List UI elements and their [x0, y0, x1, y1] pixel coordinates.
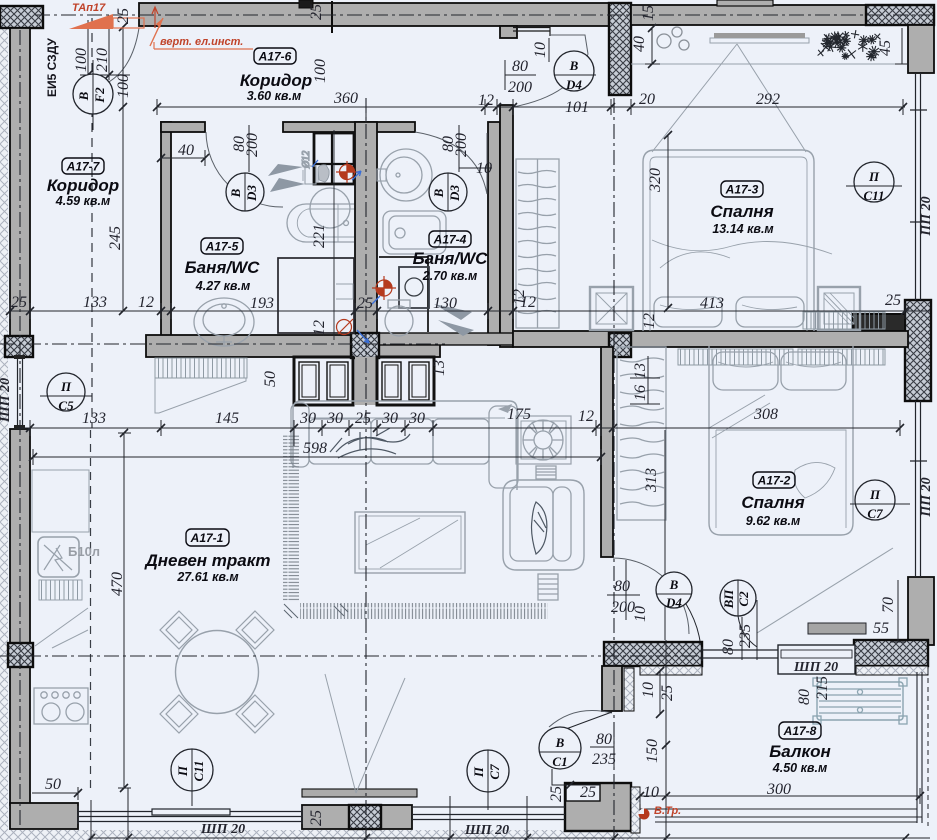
svg-text:12: 12 — [641, 313, 658, 329]
svg-text:235: 235 — [737, 624, 754, 648]
svg-text:2.70 кв.м: 2.70 кв.м — [422, 269, 477, 283]
svg-text:ПП 20: ПП 20 — [919, 477, 934, 517]
tag ВП/C2 — [720, 580, 757, 647]
left vertical dim 470 — [118, 433, 131, 788]
bedroom2 13/16 dims — [630, 356, 660, 404]
svg-text:80: 80 — [614, 578, 630, 595]
svg-text:В: В — [76, 91, 91, 101]
svg-text:А17-7: А17-7 — [66, 160, 101, 174]
svg-text:ШП 20: ШП 20 — [200, 822, 245, 837]
svg-text:245: 245 — [107, 226, 124, 250]
svg-text:Спалня: Спалня — [710, 202, 773, 221]
cabinet row group2 — [377, 357, 434, 405]
hatch block below baths (axis 366) — [351, 333, 379, 358]
top-left hatch block — [0, 6, 43, 28]
svg-text:100: 100 — [73, 48, 90, 72]
bottom dim lines — [90, 788, 930, 840]
svg-text:С7: С7 — [867, 506, 883, 521]
living balcony door arc C1 — [549, 710, 612, 727]
svg-text:413: 413 — [700, 295, 724, 312]
svg-text:30: 30 — [408, 410, 425, 427]
bath1 80/200 door line — [248, 125, 250, 172]
radiator bedroom1 — [803, 312, 885, 329]
svg-text:25: 25 — [357, 295, 373, 312]
axis vertical corridor dashed — [91, 18, 93, 428]
svg-text:200: 200 — [453, 133, 470, 157]
svg-text:470: 470 — [109, 572, 126, 596]
under-band hatch strip right — [856, 666, 928, 675]
kitchen comb — [39, 580, 82, 600]
bath1 installation shaft box — [314, 133, 354, 184]
svg-text:133: 133 — [83, 294, 107, 311]
kitchen counter — [32, 470, 89, 532]
svg-text:25: 25 — [115, 8, 132, 24]
svg-text:П: П — [868, 169, 880, 184]
svg-text:40: 40 — [631, 36, 648, 52]
svg-text:25: 25 — [580, 784, 596, 801]
tag П/C7 bottom — [467, 750, 509, 810]
dim 50 bottom-left — [32, 787, 78, 800]
vert el inst bracket — [154, 42, 253, 49]
svg-text:ШП 20: ШП 20 — [464, 823, 509, 838]
round stove — [516, 416, 571, 464]
svg-text:145: 145 — [215, 410, 239, 427]
under-band hatch strip left — [640, 666, 702, 675]
axis vertical living (366) — [365, 98, 367, 840]
svg-text:40: 40 — [178, 142, 194, 159]
svg-text:221: 221 — [311, 224, 328, 248]
balcony exterior door ШП20 — [778, 645, 855, 674]
svg-text:100: 100 — [312, 59, 329, 83]
C1 leader — [552, 769, 600, 785]
svg-text:235: 235 — [592, 751, 616, 768]
svg-text:9.62 кв.м: 9.62 кв.м — [746, 514, 800, 528]
axis horizontal balcony wall — [604, 655, 700, 657]
svg-text:308: 308 — [753, 406, 778, 423]
axis horizontal mid-left — [0, 343, 445, 345]
svg-text:50: 50 — [262, 371, 279, 387]
right window 1 glazing — [910, 73, 927, 300]
sofa — [293, 401, 517, 490]
blue arrows — [352, 171, 361, 180]
plant top-right scribble — [818, 30, 881, 61]
bedroom2 door 80/200 — [607, 560, 640, 620]
bottom window 2 glazing — [412, 807, 565, 820]
svg-text:320: 320 — [647, 168, 664, 193]
vent bubbles — [657, 34, 671, 48]
svg-text:15: 15 — [640, 5, 657, 21]
svg-text:В: В — [569, 58, 579, 73]
black stub above band — [299, 0, 313, 8]
svg-text:25: 25 — [308, 4, 325, 20]
bedroom divider wall — [513, 331, 908, 347]
right mid hatched pier — [905, 300, 931, 401]
svg-text:В: В — [431, 188, 446, 198]
svg-text:Б10л: Б10л — [68, 544, 100, 559]
svg-text:ПП 20: ПП 20 — [919, 196, 934, 236]
svg-text:ЕИ5 СЗДУ: ЕИ5 СЗДУ — [45, 38, 59, 97]
svg-text:С11: С11 — [864, 188, 885, 203]
dim line corridor y107 — [157, 99, 905, 115]
svg-text:А17-6: А17-6 — [258, 50, 292, 64]
sunbed balcony — [813, 678, 907, 724]
svg-text:25: 25 — [885, 292, 901, 309]
svg-text:12: 12 — [478, 92, 494, 109]
svg-text:80: 80 — [596, 731, 612, 748]
room А17-8 — [769, 722, 831, 775]
bottom pier hatch strip — [631, 787, 640, 833]
bath top wall segment 1 — [161, 122, 205, 132]
bedroom1 top closet edge line — [631, 63, 906, 65]
axis vertical bath mid upper — [365, 98, 367, 122]
svg-text:В: В — [555, 735, 565, 750]
corridor/bedroom wall — [500, 105, 513, 347]
balcony door swing V — [325, 674, 405, 793]
dark wall stub bedroom divider right end — [853, 314, 905, 331]
corridor top wall face lines — [513, 26, 550, 36]
bed1 pillows — [654, 297, 722, 327]
svg-text:210: 210 — [94, 48, 111, 72]
svg-text:133: 133 — [82, 410, 106, 427]
bedroom2 door swing — [613, 558, 689, 634]
svg-text:ВП: ВП — [721, 589, 736, 610]
survey mark 3 open — [337, 319, 354, 335]
bath middle wall — [355, 122, 377, 333]
svg-text:25: 25 — [308, 810, 325, 826]
tag В/C1 — [539, 712, 612, 769]
svg-text:Баня/WC: Баня/WC — [185, 258, 261, 277]
bath2 bathtub — [383, 211, 446, 254]
dim line y428 — [18, 420, 900, 446]
kitchen corner fold — [35, 608, 88, 648]
bath1 boiler circle — [310, 188, 350, 228]
svg-text:F2: F2 — [92, 87, 107, 104]
bath1 shower cabin — [278, 258, 354, 333]
bath2 gray arrows — [434, 304, 474, 336]
bath left wall — [161, 122, 171, 345]
svg-text:D3: D3 — [447, 185, 462, 202]
radiator bedroom2 — [678, 349, 793, 365]
tag В/F2 — [73, 60, 113, 130]
bath2 80/200 door line — [459, 125, 492, 172]
room А17-5 — [185, 238, 261, 293]
room А17-7 — [47, 158, 119, 208]
hall wardrobe — [516, 159, 559, 328]
svg-text:13: 13 — [431, 360, 448, 376]
D4 door dims — [505, 38, 596, 90]
axis horizontal kitchen/dining — [0, 655, 601, 657]
left window C5 glazing — [18, 357, 23, 429]
tag В/D4 bedroom2 — [656, 572, 700, 641]
svg-text:А17-2: А17-2 — [757, 474, 791, 488]
balcony door window — [702, 647, 778, 661]
bath1 gray arrows — [268, 164, 305, 192]
svg-text:ТАп17: ТАп17 — [72, 2, 106, 14]
svg-text:598: 598 — [303, 440, 327, 457]
armchair stool hatches — [538, 574, 558, 600]
bath top wall segment 2 — [283, 122, 415, 132]
dim line full width y311 — [10, 303, 930, 319]
bottom pier white notch — [566, 784, 600, 801]
bath2 door swing — [415, 132, 487, 194]
svg-text:D4: D4 — [565, 77, 582, 92]
bedroom2 pier leg — [602, 666, 622, 711]
svg-text:В.Тр.: В.Тр. — [654, 805, 681, 817]
svg-text:С5: С5 — [58, 398, 74, 413]
left hatched window pier — [5, 336, 33, 357]
bedroom2 313 dim — [664, 430, 666, 640]
svg-text:А17-8: А17-8 — [783, 724, 817, 738]
dim 70/55 right bottom — [890, 580, 906, 642]
svg-text:30: 30 — [381, 410, 398, 427]
svg-text:Коридор: Коридор — [47, 176, 119, 195]
room А17-3 — [710, 181, 773, 236]
svg-text:А17-5: А17-5 — [205, 240, 239, 254]
svg-text:45: 45 — [877, 40, 894, 56]
bed1 — [643, 150, 814, 331]
svg-text:П: П — [471, 766, 486, 778]
svg-text:верт. ел.инст.: верт. ел.инст. — [160, 36, 243, 48]
entry door swing — [103, 28, 139, 85]
svg-text:В: В — [228, 188, 243, 198]
kitchen counter dashed front — [90, 430, 92, 790]
left hatched pier 2 — [8, 643, 33, 667]
wall notch below band — [500, 26, 517, 38]
svg-text:292: 292 — [756, 91, 780, 108]
bedroom2 left wall — [601, 347, 613, 557]
room А17-6 — [240, 48, 312, 103]
bath2 toilet — [385, 306, 413, 336]
bottom hatch block (axis 366) — [349, 805, 381, 829]
svg-text:10: 10 — [532, 42, 549, 58]
svg-text:10: 10 — [632, 606, 649, 622]
top right dims 40/15 — [645, 28, 660, 64]
armchair — [503, 480, 584, 570]
svg-text:12: 12 — [311, 320, 328, 336]
chairs — [160, 611, 274, 733]
hatch block top-right — [866, 5, 934, 25]
svg-text:80: 80 — [796, 689, 813, 705]
left exterior wall lower — [10, 429, 30, 805]
balcony railing — [640, 672, 922, 823]
exterior hatch strip left — [0, 28, 8, 830]
bath1 sink — [194, 298, 254, 346]
svg-text:313: 313 — [643, 468, 660, 493]
svg-text:80: 80 — [512, 58, 528, 75]
armchair pillow scribble — [532, 502, 547, 554]
svg-text:4.27 кв.м: 4.27 кв.м — [195, 279, 250, 293]
bottom sliding-door block — [302, 805, 412, 829]
svg-text:20: 20 — [639, 91, 655, 108]
bed1 dim 320 — [667, 135, 669, 308]
svg-text:С2: С2 — [736, 591, 751, 607]
svg-text:300: 300 — [766, 781, 791, 798]
axis vertical left wall — [19, 30, 21, 828]
svg-text:10: 10 — [476, 160, 492, 177]
svg-text:13: 13 — [632, 363, 649, 379]
bed1 V lines — [652, 44, 806, 152]
left exterior wall upper — [10, 28, 30, 336]
hatch block on divider (axis 614) — [609, 333, 631, 357]
bath2 sink — [380, 149, 432, 201]
bed1 side tables — [590, 287, 633, 330]
svg-text:П: П — [175, 765, 190, 777]
svg-text:А17-1: А17-1 — [190, 531, 224, 545]
svg-text:193: 193 — [250, 295, 274, 312]
svg-text:D4: D4 — [665, 595, 682, 610]
tag П/C7 right — [850, 480, 910, 520]
left vertical dims top — [80, 20, 130, 311]
dim line y457 — [33, 449, 601, 465]
room А17-2 — [741, 472, 804, 528]
В.Тр. dot — [639, 809, 650, 820]
svg-text:С1: С1 — [552, 754, 567, 769]
bath bottom wall band — [146, 335, 440, 357]
svg-text:Баня/WC: Баня/WC — [413, 249, 489, 268]
pier leg hatch strip — [624, 668, 634, 711]
bath1 small sink — [305, 166, 316, 184]
axis vertical 614 — [613, 98, 615, 840]
svg-text:55: 55 — [873, 620, 889, 637]
svg-text:70: 70 — [880, 597, 897, 613]
svg-text:13.14 кв.м: 13.14 кв.м — [712, 222, 773, 236]
sofa plant scribble — [330, 428, 410, 458]
svg-text:215: 215 — [814, 676, 831, 700]
svg-text:А17-4: А17-4 — [433, 233, 467, 247]
bottom window 1 glazing — [78, 806, 302, 824]
tag B/D3 left — [226, 173, 264, 211]
bath1 dim 40 — [161, 150, 205, 166]
svg-text:30: 30 — [326, 410, 343, 427]
tag П/C11 bottom — [171, 749, 213, 806]
ТАп17 ramp triangle — [69, 14, 113, 29]
room А17-4 — [413, 231, 489, 283]
bath2 enclosure lines — [379, 257, 428, 332]
svg-text:130: 130 — [433, 295, 457, 312]
top exterior wall band left section — [139, 3, 611, 26]
bottom pier (living/balcony) — [565, 783, 631, 831]
living top counter comb — [155, 358, 247, 378]
bed2 pillows — [713, 352, 778, 390]
TV bar bedroom1 — [710, 38, 809, 43]
bottom-left corner wall — [10, 803, 78, 829]
svg-text:D3: D3 — [244, 185, 259, 202]
stove pipe — [536, 466, 556, 479]
dim 45 right — [895, 28, 909, 64]
svg-text:150: 150 — [644, 739, 661, 763]
svg-text:25: 25 — [548, 786, 565, 802]
svg-text:12: 12 — [511, 289, 528, 305]
svg-text:Дневен тракт: Дневен тракт — [144, 551, 271, 570]
svg-text:175: 175 — [507, 406, 531, 423]
svg-text:200: 200 — [508, 79, 532, 96]
kitchen electric box — [38, 537, 79, 577]
coffee table — [355, 512, 465, 573]
bedroom2 balcony V line — [757, 548, 893, 633]
tag В/D4 top — [554, 51, 594, 91]
bedroom2 wardrobe — [617, 347, 666, 520]
right wall lower pier — [908, 577, 934, 645]
dining table — [176, 631, 259, 714]
svg-text:12: 12 — [138, 294, 154, 311]
exterior hatch strip bottom — [0, 830, 640, 840]
svg-text:80: 80 — [720, 639, 737, 655]
svg-text:50: 50 — [45, 776, 61, 793]
balcony sliding leaf bar — [808, 623, 866, 634]
sliding glass leaf bar — [302, 789, 417, 797]
bath right wall — [488, 122, 500, 345]
svg-text:А17-3: А17-3 — [725, 183, 759, 197]
svg-text:25: 25 — [11, 294, 27, 311]
svg-text:Коридор: Коридор — [240, 71, 312, 90]
axis horizontal top — [35, 14, 930, 16]
svg-text:П: П — [869, 487, 881, 502]
svg-text:10: 10 — [640, 682, 657, 698]
svg-text:16: 16 — [632, 385, 649, 401]
svg-text:Спалня: Спалня — [741, 493, 804, 512]
right window 2 glazing — [910, 401, 927, 577]
svg-text:П: П — [60, 379, 72, 394]
svg-text:100: 100 — [115, 74, 132, 98]
svg-text:101: 101 — [565, 99, 589, 116]
bath1 bathtub — [287, 204, 354, 242]
cabinet row group1 — [294, 357, 353, 405]
balcony right hatched pier — [854, 640, 928, 666]
svg-text:30: 30 — [299, 410, 316, 427]
top exterior wall band right section — [631, 5, 934, 25]
svg-text:25: 25 — [659, 685, 676, 701]
svg-text:С11: С11 — [191, 761, 206, 782]
bedroom2 pier hatch band — [604, 642, 702, 666]
svg-text:ШП 20: ШП 20 — [793, 660, 838, 675]
bath2 washer — [399, 267, 429, 308]
bath mid 221/12 extension — [333, 130, 335, 340]
door D4 leaf — [550, 35, 588, 54]
svg-text:12: 12 — [578, 408, 594, 425]
carpet borders — [283, 434, 299, 602]
bed2 fold — [709, 395, 770, 438]
hatched pier top (axis 614) — [609, 3, 631, 95]
svg-text:27.61 кв.м: 27.61 кв.м — [176, 570, 238, 584]
bath1 door swing — [206, 132, 283, 207]
wall piece between cabinets — [355, 357, 377, 405]
room А17-1 — [144, 529, 271, 584]
bath2 bottom wall — [379, 333, 513, 345]
svg-text:С7: С7 — [487, 764, 502, 780]
tag П/C5 — [40, 373, 92, 411]
survey mark 1 — [336, 161, 358, 183]
svg-text:25: 25 — [355, 410, 371, 427]
protrusion above right band — [717, 0, 773, 6]
tag B/D3 right — [429, 173, 467, 211]
svg-text:200: 200 — [244, 133, 261, 157]
svg-text:4.59 кв.м: 4.59 кв.м — [55, 194, 110, 208]
kitchen stove — [34, 688, 88, 724]
svg-text:4.50 кв.м: 4.50 кв.м — [772, 761, 827, 775]
svg-text:Балкон: Балкон — [769, 742, 831, 761]
C2 line — [742, 600, 757, 660]
survey mark 2 — [372, 276, 396, 300]
band divider line — [331, 1, 333, 33]
bed2 — [709, 346, 853, 535]
svg-text:ШП 20: ШП 20 — [0, 378, 13, 423]
tag П/C11 right — [846, 162, 902, 202]
balcony dims — [590, 640, 920, 840]
svg-text:3.60 кв.м: 3.60 кв.м — [247, 89, 301, 103]
svg-text:360: 360 — [333, 90, 358, 107]
right wall upper pier — [908, 25, 934, 73]
svg-text:В: В — [669, 577, 679, 592]
